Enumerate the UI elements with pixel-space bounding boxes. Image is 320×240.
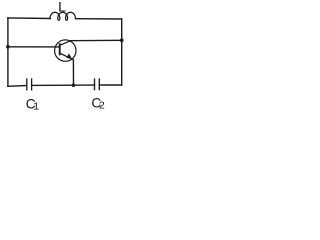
capacitor C1	[27, 79, 32, 90]
wire top right segment	[76, 18, 122, 20]
wire collector lead	[70, 39, 122, 41]
svg-text:1: 1	[33, 101, 39, 113]
wire bottom left corner segment	[8, 85, 27, 88]
wire bottom right segment	[99, 84, 121, 86]
transistor Q1	[55, 40, 76, 61]
wire left vertical	[7, 18, 9, 87]
wire base lead	[8, 46, 60, 48]
capacitor C2	[95, 79, 100, 90]
svg-text:2: 2	[99, 100, 105, 112]
inductor L	[50, 12, 75, 20]
wire emitter vertical	[72, 60, 74, 85]
svg-text:L: L	[58, 0, 66, 15]
wire right vertical	[121, 19, 123, 85]
node emitter junction	[72, 83, 76, 87]
wire top left segment	[8, 17, 51, 20]
node collector junction	[120, 38, 124, 42]
wire bottom middle segment	[74, 84, 95, 86]
node base junction	[6, 45, 10, 49]
wire bottom left-middle segment	[32, 84, 74, 86]
